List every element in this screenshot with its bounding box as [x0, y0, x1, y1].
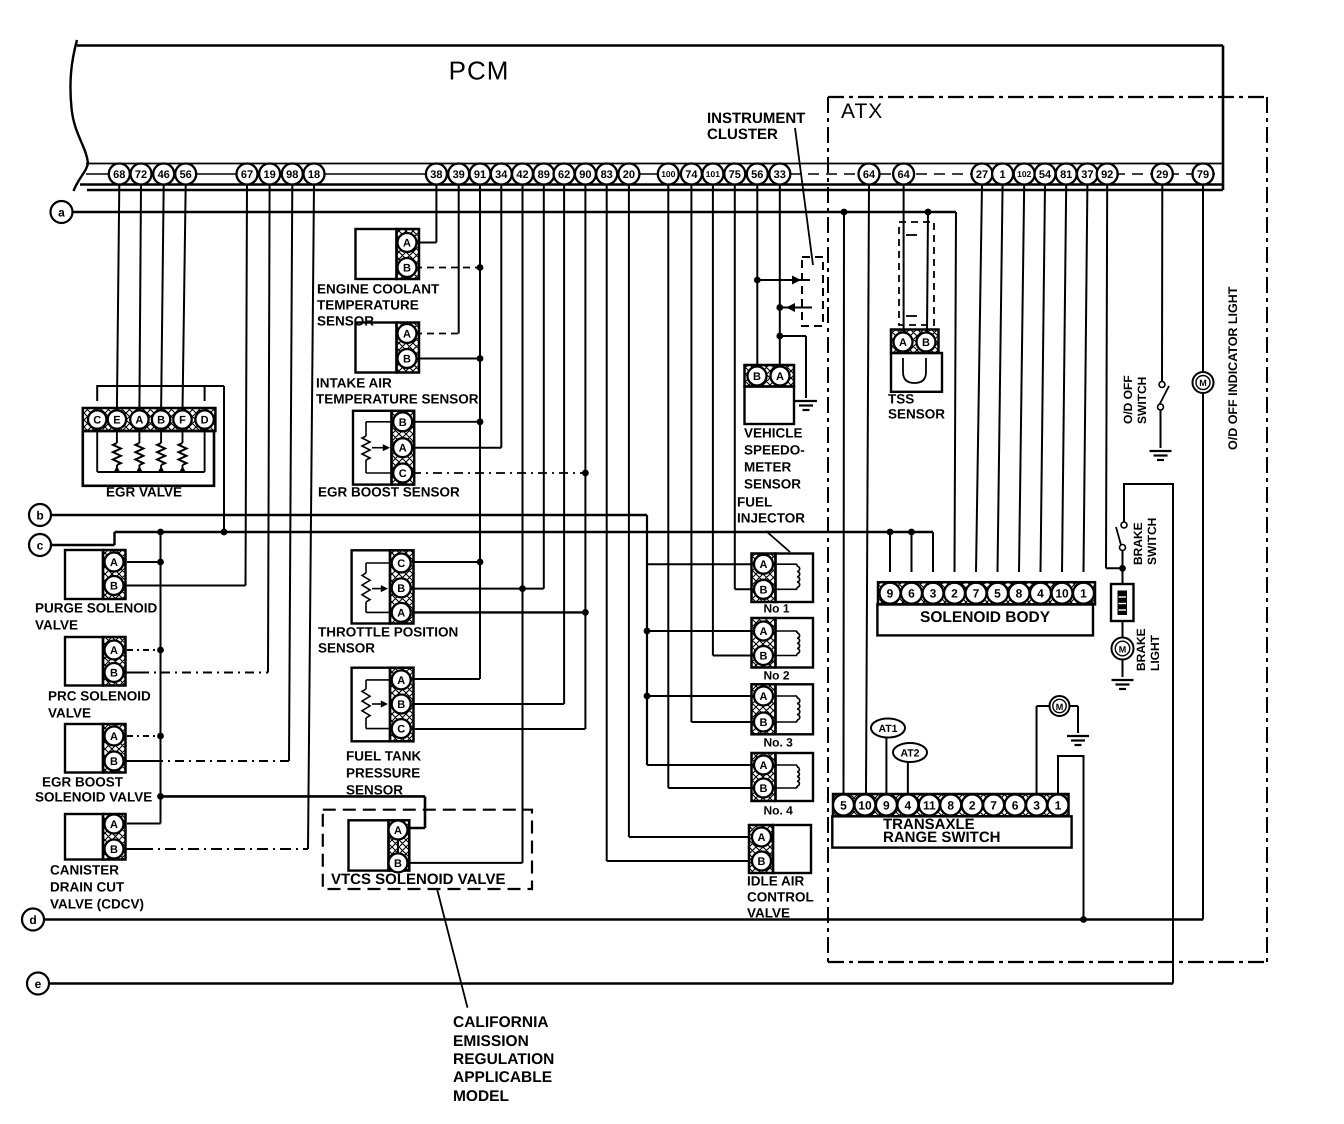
svg-text:EMISSION: EMISSION [453, 1033, 529, 1050]
injector No.1 label [764, 602, 790, 616]
svg-text:19: 19 [263, 169, 275, 181]
bus c corner down to solenoid body pin 3 [932, 532, 934, 572]
EGR boost solenoid valve pin B [105, 752, 124, 771]
transaxle range switch connector strip [833, 794, 1069, 816]
svg-text:B: B [760, 783, 768, 795]
wire pin 79 to indicator light [1202, 185, 1204, 373]
svg-text:C: C [397, 724, 405, 736]
fuel injector No.1 body [752, 554, 814, 603]
PCM pin 27 [972, 164, 993, 185]
bus a wire [73, 211, 957, 213]
ground for O/D off switch [1150, 451, 1172, 460]
bus b riser to injectors [646, 515, 648, 765]
svg-text:6: 6 [908, 587, 915, 601]
solenoid body pin 5 [987, 583, 1008, 604]
svg-text:91: 91 [474, 169, 486, 181]
injector No.1 coil [776, 564, 800, 589]
svg-text:11: 11 [923, 798, 936, 812]
california model note [453, 1014, 554, 1105]
wire brake switch to fuse [1119, 551, 1126, 585]
svg-text:92: 92 [1101, 169, 1113, 181]
svg-text:No 1: No 1 [764, 602, 790, 616]
svg-text:SOLENOID VALVE: SOLENOID VALVE [35, 790, 152, 805]
TSS label [888, 392, 945, 422]
svg-text:89: 89 [538, 169, 550, 181]
svg-text:75: 75 [729, 169, 741, 181]
svg-text:SENSOR: SENSOR [888, 407, 945, 422]
svg-text:ATX: ATX [841, 100, 883, 123]
svg-text:LIGHT: LIGHT [1148, 634, 1162, 671]
solenoid body box [877, 604, 1093, 635]
svg-text:BRAKE: BRAKE [1131, 522, 1145, 565]
svg-text:B: B [157, 414, 165, 426]
svg-text:b: b [36, 509, 43, 523]
node c [29, 534, 51, 556]
svg-text:2: 2 [951, 587, 958, 601]
svg-text:56: 56 [180, 169, 192, 181]
svg-text:PRC SOLENOID: PRC SOLENOID [48, 689, 151, 704]
instrument cluster leader line [795, 128, 813, 265]
svg-text:34: 34 [495, 169, 508, 181]
california model leader line [437, 890, 467, 1008]
wire pin 102 to solenoid body 8 [1019, 185, 1024, 573]
TPS label [318, 625, 458, 656]
fuel injector No.4 body [752, 753, 814, 801]
FTP pin A [392, 670, 411, 689]
PCM pin 74 [681, 164, 702, 185]
svg-text:B: B [403, 353, 411, 365]
node e [27, 973, 49, 995]
wire pin 29 to O/D off switch [1161, 185, 1163, 382]
fuel injector leader line [766, 531, 790, 552]
wire pin 64 to TSS A [903, 185, 905, 334]
svg-text:4: 4 [905, 798, 912, 812]
idle air control valve body [749, 825, 811, 873]
svg-text:A: A [110, 645, 118, 657]
PCM pin 90 [575, 164, 596, 185]
EGR valve label [106, 485, 182, 500]
ECT pin A [398, 233, 417, 252]
svg-text:100: 100 [661, 169, 675, 179]
svg-text:PCM: PCM [449, 56, 510, 86]
svg-text:18: 18 [308, 169, 320, 181]
fuel injector pointer label [737, 495, 805, 526]
wire pin 81 to solenoid body 10 [1062, 185, 1066, 573]
svg-text:A: A [758, 832, 766, 844]
svg-text:67: 67 [241, 169, 253, 181]
PCM pin 18 [304, 164, 325, 185]
PCM pin 64 [859, 164, 880, 185]
wire pin 67 to purge solenoid B [125, 185, 247, 586]
svg-text:8: 8 [947, 798, 954, 812]
bus a junction to TSS B [925, 209, 932, 333]
svg-text:10: 10 [858, 798, 872, 812]
svg-text:B: B [110, 756, 118, 768]
svg-text:74: 74 [685, 169, 698, 181]
wire pin 38 to ECT A [415, 185, 436, 243]
PCM connector row line [86, 173, 1218, 175]
canister drain cut valve label [50, 863, 144, 912]
O/D off switch label [1121, 375, 1149, 424]
svg-text:SWITCH: SWITCH [1135, 377, 1149, 424]
svg-text:7: 7 [973, 587, 980, 601]
PCM pin 46 [153, 164, 174, 185]
TPS pin C [392, 554, 411, 573]
PCM pin 56 [747, 164, 768, 185]
svg-text:A: A [760, 559, 768, 571]
PRC solenoid valve pin B [105, 663, 124, 682]
EGR boost sensor pin A [393, 438, 412, 457]
svg-text:C: C [93, 414, 101, 426]
purge solenoid valve pin B [105, 576, 124, 595]
svg-text:A: A [394, 825, 402, 837]
injector No.1 pin A [754, 555, 773, 574]
svg-text:5: 5 [840, 798, 847, 812]
injector No.4 pin A [754, 756, 773, 775]
TRS pin 11 [919, 795, 940, 816]
injector No.4 coil [776, 765, 800, 788]
TPS internal resistor [362, 563, 390, 612]
solenoid body pin 7 [966, 583, 987, 604]
svg-text:5: 5 [994, 587, 1001, 601]
svg-text:4: 4 [1037, 587, 1044, 601]
svg-text:SENSOR: SENSOR [318, 641, 375, 656]
svg-text:B: B [760, 650, 768, 662]
TRS pin 1 [1048, 795, 1069, 816]
VSS label [744, 426, 805, 492]
PCM pin 91 [470, 164, 491, 185]
motor M ground wire [1070, 706, 1079, 733]
EGR boost solenoid valve pin A [105, 727, 124, 746]
svg-text:VALVE: VALVE [35, 618, 78, 633]
svg-text:C: C [397, 558, 405, 570]
IAT label [316, 376, 479, 407]
svg-text:SOLENOID BODY: SOLENOID BODY [920, 609, 1051, 626]
brake light bulb [1112, 638, 1134, 660]
PCM pin 39 [448, 164, 469, 185]
svg-text:A: A [110, 557, 118, 569]
svg-text:1: 1 [1055, 798, 1062, 812]
EGR boost sensor pin C [393, 464, 412, 483]
VSS pin A [771, 367, 790, 386]
svg-text:VTCS SOLENOID VALVE: VTCS SOLENOID VALVE [331, 871, 505, 888]
svg-text:TEMPERATURE: TEMPERATURE [317, 298, 419, 313]
wire instrument cluster to pin 33 [776, 303, 812, 312]
svg-text:E: E [113, 414, 120, 426]
PRC solenoid valve body [65, 637, 126, 686]
wire chain to EGR boost solenoid A [127, 733, 164, 740]
svg-text:VALVE (CDCV): VALVE (CDCV) [50, 897, 144, 912]
svg-text:SENSOR: SENSOR [346, 783, 403, 798]
PCM pin 92 [1097, 164, 1118, 185]
PRC solenoid valve label [48, 689, 151, 721]
VSS pin B [748, 367, 767, 386]
solenoid body pin 6 [901, 583, 922, 604]
svg-text:MODEL: MODEL [453, 1088, 509, 1105]
wire pin 101 to injector No.2 B [713, 185, 754, 656]
wire indicator light to bus d [1202, 393, 1204, 920]
engine coolant temp sensor body [356, 229, 420, 279]
svg-text:INJECTOR: INJECTOR [737, 511, 805, 526]
PCM pin 33 [769, 164, 790, 185]
PCM pin 89 [533, 164, 554, 185]
TPS pin A [392, 603, 411, 622]
wire TPS C to sensor ground bus [412, 559, 483, 566]
svg-text:102: 102 [1017, 169, 1031, 179]
svg-text:M: M [1056, 702, 1064, 712]
svg-text:SWITCH: SWITCH [1145, 518, 1159, 565]
svg-text:68: 68 [113, 169, 125, 181]
svg-text:101: 101 [706, 169, 720, 179]
PCM pin 81 [1056, 164, 1077, 185]
svg-text:B: B [758, 856, 766, 868]
svg-text:INSTRUMENT: INSTRUMENT [707, 110, 805, 127]
wire chain to purge solenoid A [127, 559, 164, 566]
svg-text:79: 79 [1197, 169, 1209, 181]
svg-text:CONTROL: CONTROL [747, 890, 814, 905]
PCM pin 72 [131, 164, 152, 185]
svg-text:9: 9 [887, 587, 894, 601]
svg-text:APPLICABLE: APPLICABLE [453, 1069, 552, 1086]
wire pin 19 to PRC solenoid B [125, 185, 270, 673]
AT1 connector [871, 719, 905, 795]
svg-text:39: 39 [453, 169, 465, 181]
svg-text:90: 90 [579, 169, 591, 181]
svg-text:A: A [899, 337, 907, 349]
svg-text:8: 8 [1016, 587, 1023, 601]
VTCS solenoid valve body [349, 820, 410, 870]
purge solenoid valve body [65, 550, 126, 599]
svg-text:O/D OFF INDICATOR LIGHT: O/D OFF INDICATOR LIGHT [1226, 286, 1240, 450]
injector No.3 coil [776, 696, 800, 722]
PCM pin 38 [426, 164, 447, 185]
injector No.3 pin A [754, 687, 773, 706]
wire FTP C to pin 90 [412, 185, 585, 730]
bus a junction to TRS pin 5 [841, 209, 848, 795]
svg-text:F: F [179, 414, 186, 426]
svg-text:38: 38 [430, 169, 442, 181]
svg-text:A: A [776, 371, 784, 383]
TSS shield dashed box [899, 222, 934, 325]
wire fuse to brake light [1122, 621, 1124, 638]
TSS sensor connector [891, 330, 939, 354]
svg-text:56: 56 [751, 169, 763, 181]
wire chain to PRC solenoid A [127, 647, 164, 654]
FTP pin C [392, 719, 411, 738]
transaxle range switch box [832, 816, 1071, 847]
svg-text:64: 64 [863, 169, 876, 181]
O/D off switch ground wire [1160, 410, 1162, 448]
injector No.3 pin B [754, 713, 773, 732]
EGR valve body box [83, 431, 214, 486]
TRS pin 5 [833, 795, 854, 816]
svg-text:TSS: TSS [888, 392, 914, 407]
svg-text:SENSOR: SENSOR [744, 477, 801, 492]
wire TPS B to pin 89 [412, 185, 544, 592]
svg-text:B: B [394, 858, 402, 870]
fuel tank pressure sensor body [352, 668, 414, 742]
wire pin 74 to injector No.3 B [691, 185, 754, 723]
svg-text:No 2: No 2 [764, 669, 790, 683]
PCM pin 68 [109, 164, 130, 185]
svg-text:54: 54 [1039, 169, 1052, 181]
svg-text:62: 62 [558, 169, 570, 181]
injector No.2 coil [776, 631, 800, 656]
wire pin 34 to EGR boost sensor A [412, 185, 501, 448]
svg-text:M: M [1199, 378, 1207, 388]
solenoid body pin 10 [1052, 583, 1073, 604]
wire to injector No.1 A [647, 563, 754, 565]
wire pin 54 to solenoid body 4 [1041, 185, 1046, 573]
svg-text:A: A [403, 328, 411, 340]
svg-text:B: B [399, 417, 407, 429]
svg-text:IDLE AIR: IDLE AIR [747, 874, 805, 889]
svg-text:SENSOR: SENSOR [317, 314, 374, 329]
intake air temp sensor body [356, 323, 420, 373]
wire pin 83 to IACV B [607, 185, 750, 862]
fuel injector No.2 body [752, 618, 814, 668]
PCM pin 67 [237, 164, 258, 185]
wire pin 75 to injector No.1 B [735, 185, 754, 590]
TSS pin B [917, 333, 936, 352]
svg-text:TEMPERATURE SENSOR: TEMPERATURE SENSOR [316, 392, 479, 407]
TRS pin 9 [876, 795, 897, 816]
EGR valve pin C [88, 410, 106, 428]
solenoid body pin 3 [923, 583, 944, 604]
EGR valve C-D top bus [97, 386, 224, 401]
ground for motor M [1067, 736, 1089, 745]
svg-text:1: 1 [1000, 169, 1006, 181]
TRS pin 10 [854, 795, 875, 816]
svg-text:CALIFORNIA: CALIFORNIA [453, 1014, 549, 1031]
VSS ground branch [776, 333, 806, 398]
wire pin 72 to EGR valve A [139, 185, 141, 411]
purge solenoid valve pin A [105, 553, 124, 572]
svg-text:VALVE: VALVE [747, 906, 790, 921]
svg-text:33: 33 [774, 169, 786, 181]
TSS pin A [894, 333, 913, 352]
TRS pin 8 [940, 795, 961, 816]
instrument cluster label [707, 110, 805, 143]
PCM pin 42 [512, 164, 533, 185]
TSS shield ticks [906, 235, 917, 316]
TPS pin B [392, 578, 411, 597]
svg-text:FUEL: FUEL [737, 495, 772, 510]
O/D off indicator light label [1226, 286, 1240, 450]
PCM pin 19 [259, 164, 280, 185]
svg-text:VALVE: VALVE [48, 706, 91, 721]
solenoid body pin 9 [880, 583, 901, 604]
svg-text:20: 20 [623, 169, 635, 181]
injector No.4 label [764, 804, 794, 818]
vehicle speedometer sensor connector [745, 365, 795, 387]
svg-text:CANISTER: CANISTER [50, 863, 119, 878]
svg-text:64: 64 [897, 169, 910, 181]
svg-text:AT1: AT1 [878, 723, 897, 735]
PRC solenoid valve pin A [105, 641, 124, 660]
wire pin 100 to injector No.4 B [668, 185, 754, 789]
svg-text:1: 1 [1080, 587, 1087, 601]
svg-text:SPEEDO-: SPEEDO- [744, 443, 805, 458]
wire FTP B to pin 62 [412, 185, 564, 705]
svg-text:BRAKE: BRAKE [1134, 628, 1148, 671]
svg-text:INTAKE AIR: INTAKE AIR [316, 376, 392, 391]
svg-text:No. 3: No. 3 [764, 736, 794, 750]
wire pin 92 to brake switch [1106, 185, 1123, 569]
ATX label [841, 100, 883, 123]
node d [22, 909, 44, 931]
wire pin 27 to solenoid body 7 [976, 185, 982, 573]
injector No.4 pin B [754, 779, 773, 798]
PCM pin 98 [282, 164, 303, 185]
svg-text:B: B [110, 844, 118, 856]
IACV label [747, 874, 814, 921]
wire TRS pin 1 to bus d [1058, 756, 1087, 923]
PCM pin 20 [618, 164, 639, 185]
svg-text:A: A [397, 675, 405, 687]
svg-text:B: B [753, 371, 761, 383]
brake light label [1134, 628, 1162, 671]
svg-text:A: A [110, 819, 118, 831]
TRS pin 3 [1026, 795, 1047, 816]
EGR boost sensor pin B [393, 412, 412, 431]
wire bus c to solenoid A pins chain [157, 529, 164, 824]
bus a corner down to solenoid body pin 2 [955, 212, 957, 572]
svg-text:c: c [37, 539, 44, 553]
EGR boost sensor internal resistor [362, 422, 392, 473]
brake switch [1116, 522, 1127, 551]
svg-text:DRAIN CUT: DRAIN CUT [50, 880, 125, 895]
bus c wire [51, 532, 933, 545]
node a [51, 201, 73, 223]
svg-text:M: M [1119, 645, 1127, 655]
TSS body box [891, 353, 942, 392]
EGR valve connector strip [83, 408, 216, 431]
ECT pin B [398, 258, 417, 277]
wire pin 33 to VSS A [779, 185, 781, 368]
svg-text:6: 6 [1012, 798, 1019, 812]
svg-text:37: 37 [1081, 169, 1093, 181]
svg-text:A: A [760, 691, 768, 703]
svg-text:10: 10 [1055, 587, 1069, 601]
injector No.3 label [764, 736, 794, 750]
PCM pin 34 [491, 164, 512, 185]
injector No.2 pin A [754, 622, 773, 641]
ground for VSS [795, 401, 817, 410]
ECT label [317, 282, 440, 329]
svg-text:B: B [110, 667, 118, 679]
ATX transmission dash-dot box [828, 97, 1267, 962]
wire to injector No.2 A [644, 628, 754, 635]
PCM pin 29 [1152, 164, 1173, 185]
EGR boost solenoid valve label [35, 775, 152, 805]
svg-text:D: D [201, 414, 209, 426]
svg-text:3: 3 [1033, 798, 1040, 812]
wire pin 18 to CDCV B [125, 185, 314, 850]
purge solenoid valve label [35, 601, 158, 633]
FTP internal resistor [362, 680, 390, 729]
TRS pin 2 [962, 795, 983, 816]
svg-text:PURGE SOLENOID: PURGE SOLENOID [35, 601, 158, 616]
svg-text:2: 2 [969, 798, 976, 812]
PCM pin 37 [1077, 164, 1098, 185]
PCM pin 1 [992, 164, 1013, 185]
bus c drop to solenoid body pin 6 [908, 529, 915, 572]
motor M [1050, 696, 1070, 716]
svg-text:9: 9 [883, 798, 890, 812]
wire pin 37 to solenoid body 1 [1084, 185, 1088, 573]
PCM pin 56 [175, 164, 196, 185]
